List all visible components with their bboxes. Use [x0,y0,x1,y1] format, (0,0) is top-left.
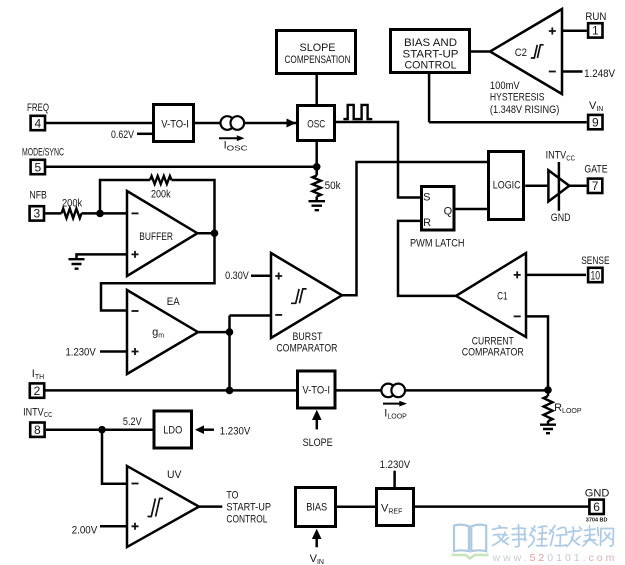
svg-text:1.230V: 1.230V [220,425,251,437]
svg-text:S: S [423,192,430,204]
svg-text:1.230V: 1.230V [380,459,411,471]
svg-text:MODE/SYNC: MODE/SYNC [22,146,64,158]
svg-text:NFB: NFB [29,190,47,202]
svg-text:2.00V: 2.00V [72,525,98,537]
svg-text:3: 3 [33,207,40,221]
svg-text:TO: TO [226,490,238,502]
svg-text:200k: 200k [151,189,171,201]
svg-text:BUFFER: BUFFER [139,231,173,243]
svg-text:HYSTERESIS: HYSTERESIS [490,91,545,103]
svg-text:GND: GND [551,212,571,224]
svg-text:www.520101.com: www.520101.com [492,552,618,564]
svg-text:8: 8 [34,423,41,437]
svg-text:COMPENSATION: COMPENSATION [285,54,351,66]
svg-text:LDO: LDO [163,425,182,437]
svg-text:SENSE: SENSE [581,255,609,267]
svg-text:4: 4 [34,116,41,130]
svg-text:C2: C2 [515,47,527,59]
svg-text:5: 5 [34,160,41,174]
svg-text:SLOPE: SLOPE [300,42,336,54]
svg-text:3704 BD: 3704 BD [586,518,608,524]
svg-text:1.248V: 1.248V [584,68,615,80]
svg-text:CONTROL: CONTROL [226,514,267,526]
svg-text:9: 9 [592,115,599,129]
svg-text:LOGIC: LOGIC [493,180,521,192]
svg-text:C1: C1 [497,291,507,303]
svg-text:100mV: 100mV [490,80,520,92]
svg-text:1.230V: 1.230V [66,347,97,359]
svg-text:50k: 50k [325,180,341,192]
svg-text:10: 10 [591,268,601,282]
svg-text:BURST: BURST [293,331,323,343]
svg-text:BIAS AND: BIAS AND [404,37,457,49]
svg-text:2: 2 [34,384,41,398]
svg-text:START-UP: START-UP [226,502,271,514]
svg-text:V-TO-I: V-TO-I [302,385,330,397]
svg-text:COMPARATOR: COMPARATOR [276,343,337,355]
svg-text:200k: 200k [62,197,83,209]
svg-text:OSC: OSC [307,118,325,130]
svg-text:1: 1 [592,24,599,38]
svg-text:(1.348V RISING): (1.348V RISING) [490,104,559,116]
svg-text:FREQ: FREQ [27,102,49,114]
svg-text:7: 7 [592,179,599,193]
svg-text:GATE: GATE [584,164,607,176]
svg-text:0.62V: 0.62V [111,129,135,141]
svg-text:CONTROL: CONTROL [405,60,457,72]
svg-text:6: 6 [593,500,600,514]
svg-text:R: R [423,217,431,229]
svg-text:5.2V: 5.2V [123,416,142,428]
svg-text:RUN: RUN [585,11,606,23]
svg-text:BIAS: BIAS [306,502,327,514]
svg-text:0.30V: 0.30V [225,270,249,282]
svg-text:SLOPE: SLOPE [303,437,333,449]
svg-text:UV: UV [167,469,182,481]
svg-text:GND: GND [585,488,610,500]
svg-text:Q: Q [444,206,453,218]
svg-text:COMPARATOR: COMPARATOR [462,347,524,359]
svg-text:EA: EA [167,296,180,308]
svg-text:V-TO-I: V-TO-I [161,119,189,131]
svg-text:PWM LATCH: PWM LATCH [410,237,465,249]
